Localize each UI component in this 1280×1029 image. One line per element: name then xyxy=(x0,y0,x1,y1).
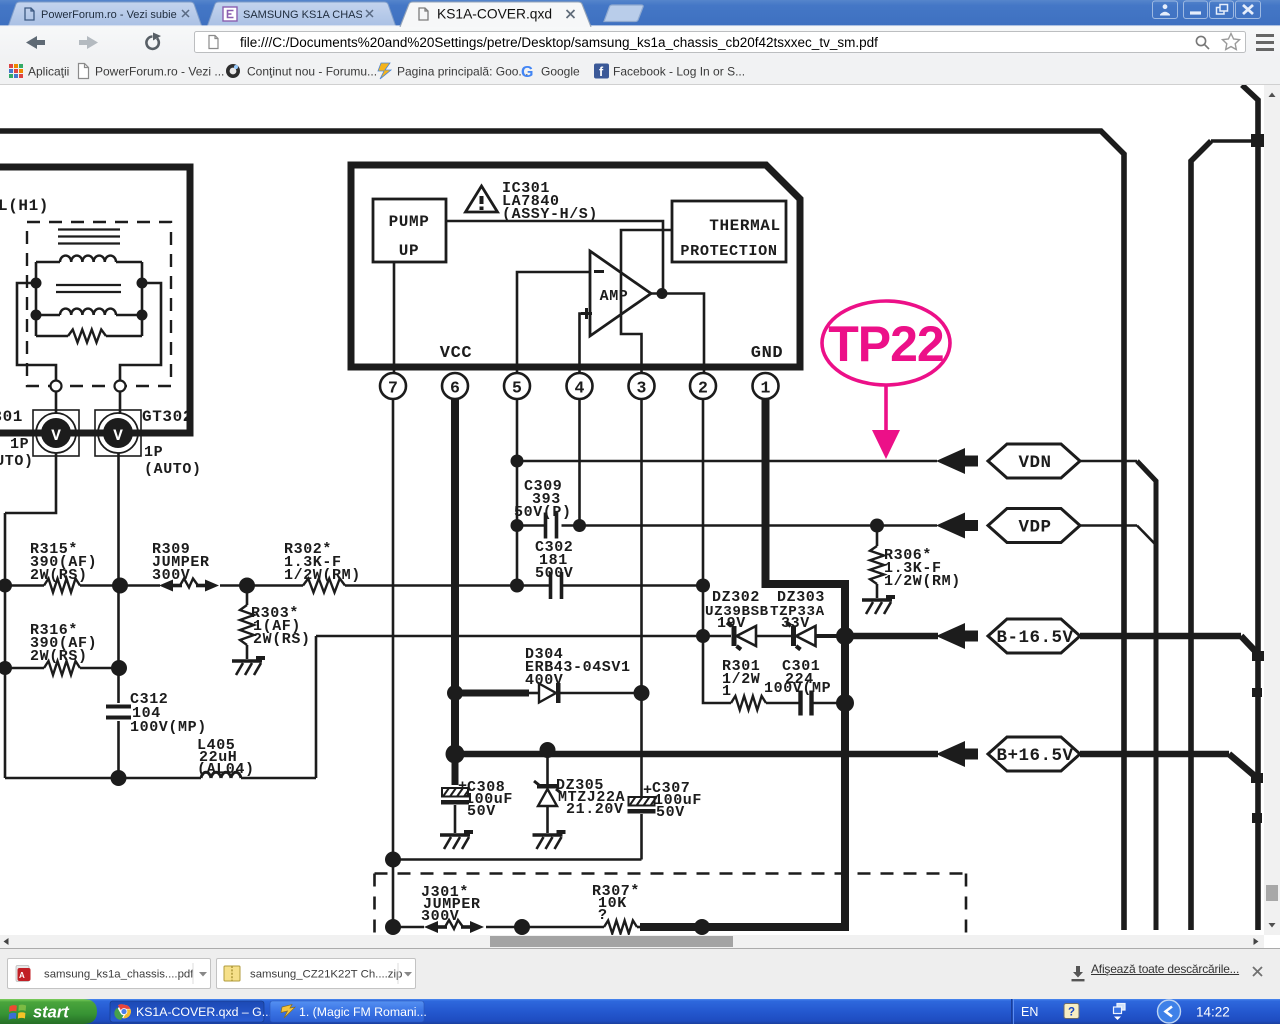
label C308 xyxy=(465,779,513,820)
start button xyxy=(0,999,97,1024)
label GND xyxy=(751,344,783,363)
coil winding L1 xyxy=(36,256,142,262)
chevron circle xyxy=(1158,1000,1181,1023)
svg-text:B+16.5V: B+16.5V xyxy=(996,746,1073,766)
svg-text:(AUTO): (AUTO) xyxy=(144,461,202,478)
wire: top horizontal bus xyxy=(0,131,1124,930)
capacitor C309 xyxy=(511,513,587,539)
svg-text:KS1A-COVER.qxd: KS1A-COVER.qxd xyxy=(437,7,552,22)
pin 6 xyxy=(442,373,468,399)
wire: pin7 column xyxy=(392,399,395,927)
svg-text:300V: 300V xyxy=(152,567,190,584)
window buttons xyxy=(1153,1,1261,19)
jumper R309 xyxy=(159,579,219,592)
svg-text:5: 5 xyxy=(512,379,522,398)
pin 5 xyxy=(504,373,530,399)
svg-text:V: V xyxy=(51,427,61,445)
reload xyxy=(146,37,158,49)
menu button xyxy=(1256,36,1274,50)
svg-text:2W(RS): 2W(RS) xyxy=(30,648,88,665)
label C302 xyxy=(535,539,573,582)
svg-text:samsung_CZ21K22T Ch....zip: samsung_CZ21K22T Ch....zip xyxy=(250,969,402,981)
svg-text:(AL04): (AL04) xyxy=(197,761,255,778)
ground (C308) xyxy=(440,830,473,849)
svg-text:?: ? xyxy=(1068,1007,1075,1019)
label R306 xyxy=(884,547,961,590)
svg-text:VDN: VDN xyxy=(1018,453,1051,473)
new tab button xyxy=(604,5,643,22)
task button 2 xyxy=(270,1001,424,1022)
forward arrow (disabled) xyxy=(79,36,98,49)
wire: R316 row xyxy=(5,667,119,670)
pin 3 xyxy=(629,373,655,399)
labels DZ302 DZ303 xyxy=(705,589,825,632)
op-amp IC block IC301 outline xyxy=(351,165,800,367)
svg-text:21.20V: 21.20V xyxy=(566,801,624,818)
svg-text:VCC: VCC xyxy=(440,344,472,363)
ground (R306) xyxy=(862,595,895,614)
wire: left vertical xyxy=(4,513,7,778)
resistor R315 xyxy=(44,579,80,593)
active tab xyxy=(400,2,591,27)
core lines middle xyxy=(56,285,121,292)
label GT301 xyxy=(0,408,34,470)
capacitor C308 xyxy=(441,754,470,833)
label L405 xyxy=(197,737,255,778)
svg-text:2W(RS): 2W(RS) xyxy=(253,631,311,648)
junction dot C301 out xyxy=(836,694,854,712)
block THERMAL PROTECTION xyxy=(672,201,786,262)
wire: amp output to pin2 drop xyxy=(651,294,704,374)
svg-text:PowerForum.ro - Vezi ...: PowerForum.ro - Vezi ... xyxy=(95,65,224,79)
back arrow xyxy=(26,36,45,49)
arrow VDP xyxy=(936,513,978,539)
label IC301 LA7840 xyxy=(502,180,598,223)
resistor (posistor) in coil loop xyxy=(36,330,142,343)
omnibox xyxy=(195,32,1246,53)
wire: VDP net xyxy=(562,526,1156,545)
zoom icon xyxy=(1196,36,1209,49)
downloads bar xyxy=(0,948,1280,999)
core lines top xyxy=(58,230,120,244)
ground (R303) xyxy=(232,656,265,675)
label C312 xyxy=(130,691,207,736)
taskbar xyxy=(0,999,1280,1024)
svg-text:50V: 50V xyxy=(467,803,496,820)
svg-text:PROTECTION: PROTECTION xyxy=(680,242,777,260)
svg-text:PUMP: PUMP xyxy=(389,213,430,231)
wire: pin6 thick column xyxy=(451,399,459,754)
arrow VDN xyxy=(936,448,978,474)
svg-text:1. (Magic FM Romani...: 1. (Magic FM Romani... xyxy=(299,1005,427,1019)
junction: pin5/VDN xyxy=(511,455,524,468)
svg-text:GT301: GT301 xyxy=(0,408,23,426)
wire: right tap to GT302 xyxy=(120,283,161,381)
resistor R316 xyxy=(44,661,80,675)
wire: pin5 column xyxy=(516,399,519,586)
net label B-16.5V xyxy=(988,619,1080,653)
horizontal scrollbar xyxy=(0,935,1264,948)
labels R301 C301 xyxy=(722,658,831,700)
dashed partition (bottom) xyxy=(375,874,967,934)
svg-text:1/2W(RM): 1/2W(RM) xyxy=(884,573,961,590)
svg-text:1P: 1P xyxy=(10,436,29,453)
coil winding L2 xyxy=(36,309,142,315)
svg-text:2: 2 xyxy=(698,379,708,398)
label J301 xyxy=(421,884,481,925)
svg-text:100V(MP: 100V(MP xyxy=(764,680,831,697)
block PUMP UP xyxy=(373,199,446,262)
svg-text:300V: 300V xyxy=(421,908,459,925)
svg-text:?: ? xyxy=(598,907,608,924)
wire: VDN net xyxy=(517,461,1156,930)
resistor R302 xyxy=(303,579,345,593)
net label B+16.5V xyxy=(988,737,1080,771)
svg-text:100V(MP): 100V(MP) xyxy=(130,719,207,736)
? tray icon xyxy=(1064,1004,1079,1019)
wire: GT302 column xyxy=(117,453,120,778)
svg-text:PowerForum.ro - Vezi subiect: PowerForum.ro - Vezi subiect xyxy=(41,9,185,21)
resistor R301 xyxy=(731,696,766,710)
svg-text:Conţinut nou - Forumu...: Conţinut nou - Forumu... xyxy=(247,65,377,79)
svg-text:33V: 33V xyxy=(781,615,810,632)
wire: inverting input to pin5 xyxy=(517,272,590,373)
wire: left tap to GT301 xyxy=(17,283,56,381)
capacitor C307 xyxy=(628,782,657,860)
open terminal circles xyxy=(51,381,126,392)
label VCC xyxy=(440,344,472,363)
wire: non-inverting input to pin4 xyxy=(580,314,591,374)
svg-text:6: 6 xyxy=(450,379,460,398)
junction dot bottom rail xyxy=(111,770,127,786)
ground (DZ305) xyxy=(533,830,566,849)
browser tab strip xyxy=(0,0,1280,27)
capacitor C302 xyxy=(551,572,711,599)
tray divider xyxy=(1011,999,1013,1024)
svg-text:GT302: GT302 xyxy=(142,408,193,426)
wire: branch to right trunk xyxy=(1191,141,1258,930)
zener DZ303 xyxy=(787,623,816,650)
net label VDP xyxy=(988,509,1080,543)
pin 2 xyxy=(690,373,716,399)
node dots coil xyxy=(31,278,148,321)
svg-text:2W(RS): 2W(RS) xyxy=(30,567,88,584)
svg-text:Aplicaţii: Aplicaţii xyxy=(28,65,69,79)
wire: pin7 from pump-up xyxy=(393,262,396,373)
label R315 xyxy=(30,541,97,584)
inductor L405 xyxy=(201,772,241,778)
svg-text:AMP: AMP xyxy=(600,288,629,305)
wire: right edge trunk xyxy=(1242,85,1258,930)
star icon xyxy=(1223,34,1240,50)
small window tray icon xyxy=(1114,1004,1126,1014)
svg-text:1P: 1P xyxy=(144,444,163,461)
wire: J301 row xyxy=(393,926,648,929)
junction nubs right trunk xyxy=(1251,651,1264,823)
svg-text:THERMAL: THERMAL xyxy=(709,217,780,235)
junction dots R316 xyxy=(0,660,127,676)
svg-text:file:///C:/Documents%20and%20S: file:///C:/Documents%20and%20Settings/pe… xyxy=(240,35,878,50)
label R307 xyxy=(592,883,640,924)
pin 7 xyxy=(380,373,406,399)
dashed enclosure (degaussing coil) xyxy=(27,222,171,386)
wire: B-16.5V net xyxy=(316,636,1258,654)
svg-text:1/2W(RM): 1/2W(RM) xyxy=(284,567,361,584)
svg-text:Google: Google xyxy=(541,65,580,79)
toolbar with omnibox xyxy=(0,27,1280,58)
svg-text:samsung_ks1a_chassis....pdf: samsung_ks1a_chassis....pdf xyxy=(44,969,194,981)
zener DZ302 xyxy=(727,623,756,650)
inactive tab 1 xyxy=(8,2,202,27)
apps grid icon xyxy=(9,64,23,78)
junction dots B- xyxy=(696,627,854,645)
svg-text:1: 1 xyxy=(722,683,732,700)
junction: amp output xyxy=(657,288,668,299)
inactive tab 2 xyxy=(207,2,396,27)
wire: pin4 column xyxy=(578,399,581,526)
svg-text:500V: 500V xyxy=(535,565,573,582)
label GT302 xyxy=(142,408,202,478)
wire: C307 bottom to pin7 column xyxy=(385,852,642,868)
svg-text:7: 7 xyxy=(388,379,398,398)
svg-text:TP22: TP22 xyxy=(828,316,944,372)
svg-text:VDP: VDP xyxy=(1018,518,1051,538)
svg-text:400V: 400V xyxy=(525,672,563,689)
wire: pin1 thick gnd path xyxy=(640,399,845,927)
svg-text:50V(P): 50V(P) xyxy=(514,504,572,521)
svg-text:Facebook - Log In or S...: Facebook - Log In or S... xyxy=(613,65,745,79)
junction dots 300V rail xyxy=(0,578,524,594)
label R309 xyxy=(152,541,210,584)
net label VDN xyxy=(988,444,1080,478)
pin 1 xyxy=(753,373,779,399)
svg-text:L(H1): L(H1) xyxy=(0,197,49,215)
svg-text:4: 4 xyxy=(575,379,585,398)
task button 1 (active) xyxy=(110,1001,264,1022)
diode D304 xyxy=(447,683,650,703)
svg-text:GND: GND xyxy=(751,344,783,363)
svg-text:G: G xyxy=(521,64,533,81)
svg-text:V: V xyxy=(113,427,123,445)
bookmarks bar xyxy=(0,58,1280,85)
coil frame verticals xyxy=(36,262,142,336)
zener DZ305 xyxy=(534,754,561,833)
wire: thick bottom rail through spark gaps xyxy=(0,430,190,437)
label DZ305 xyxy=(556,777,625,818)
svg-text:KS1A-COVER.qxd – G...: KS1A-COVER.qxd – G... xyxy=(136,1005,272,1019)
capacitor C312 xyxy=(106,707,131,718)
label C307 xyxy=(652,780,702,821)
svg-text:start: start xyxy=(33,1004,70,1022)
label D304 xyxy=(525,646,631,689)
svg-text:(AUTO): (AUTO) xyxy=(0,453,34,470)
junction dots J301 row xyxy=(385,919,710,935)
resistor R307 xyxy=(604,921,637,934)
arrow B- xyxy=(936,623,978,649)
svg-text:14:22: 14:22 xyxy=(1196,1005,1230,1020)
svg-text:UP: UP xyxy=(399,242,419,260)
label R316 xyxy=(30,622,97,665)
svg-text:Pagina principală: Goo...: Pagina principală: Goo... xyxy=(397,65,528,79)
wire: pin2 column xyxy=(703,399,731,703)
wire: 300V rail xyxy=(5,584,703,587)
wire: GT301 drop xyxy=(5,453,56,513)
svg-text:50V: 50V xyxy=(656,804,685,821)
capacitor C301 xyxy=(766,691,845,716)
resistor R303 xyxy=(240,586,254,660)
svg-text:1: 1 xyxy=(761,379,771,398)
wire: pin3 column xyxy=(640,399,643,797)
wire: stubs to spark gaps xyxy=(56,391,120,414)
junction: pin6/B+ xyxy=(446,742,556,764)
svg-text:EN: EN xyxy=(1021,1005,1038,1019)
pin 4 xyxy=(567,373,593,399)
wire: pin3 to thermal protection xyxy=(621,230,672,373)
svg-text:A: A xyxy=(19,971,25,980)
toolbar seam xyxy=(0,25,1280,27)
label L(H1) xyxy=(0,197,49,215)
vertical scrollbar xyxy=(1264,85,1280,935)
wire: B+16.5V net xyxy=(455,754,1256,777)
outer shield box (left) xyxy=(0,167,190,433)
warning triangle xyxy=(466,186,498,212)
wire: bottom return rail xyxy=(5,636,316,778)
label C309 xyxy=(514,478,572,521)
op-amp AMP triangle xyxy=(581,251,651,336)
svg-text:3: 3 xyxy=(637,379,647,398)
svg-text:19V: 19V xyxy=(717,615,746,632)
jumper J301 xyxy=(424,920,484,933)
spark gap GT301 xyxy=(33,410,79,456)
junction: branch/trunk xyxy=(1251,134,1264,147)
wire: pump-up to amp output xyxy=(446,221,663,294)
resistor R306 xyxy=(870,519,884,599)
spark gap GT302 xyxy=(95,410,141,456)
test point TP22 xyxy=(822,301,950,459)
arrow B+ xyxy=(936,741,978,767)
label R303 xyxy=(251,605,311,648)
label R302 xyxy=(284,541,361,584)
svg-text:B-16.5V: B-16.5V xyxy=(996,628,1073,648)
